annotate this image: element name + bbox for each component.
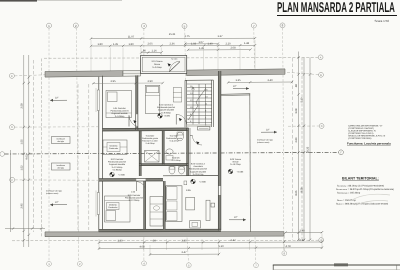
- svg-text:4: 4: [143, 24, 145, 28]
- svg-text:+(2.85)mp: +(2.85)mp: [112, 168, 122, 171]
- svg-text:2.20: 2.20: [225, 42, 231, 45]
- svg-text:8: 8: [282, 24, 284, 28]
- svg-text:22°: 22°: [266, 128, 270, 131]
- svg-text:+2.685: +2.685: [199, 180, 207, 183]
- svg-text:5: 5: [184, 24, 186, 28]
- svg-text:+2.685: +2.685: [237, 170, 245, 173]
- svg-text:Pardoseala parchet: Pardoseala parchet: [189, 168, 207, 171]
- svg-text:9.01 Terasa: 9.01 Terasa: [152, 60, 164, 63]
- svg-text:8.02 Dormitor: 8.02 Dormitor: [111, 158, 124, 161]
- svg-text:.90: .90: [152, 239, 156, 242]
- svg-text:E: E: [11, 75, 13, 78]
- svg-text:4.08: 4.08: [139, 245, 145, 248]
- svg-text:1.05: 1.05: [131, 191, 136, 194]
- svg-text:.98: .98: [295, 84, 298, 88]
- svg-text:1.07: 1.07: [198, 41, 204, 44]
- svg-text:Sdesfasurata = 165.46mp: Sdesfasurata = 165.46mp: [337, 191, 361, 194]
- svg-text:1: 1: [48, 24, 50, 28]
- svg-text:2: 2: [75, 24, 77, 28]
- svg-text:2.47: 2.47: [181, 251, 187, 254]
- svg-text:BILANT TERITORIAL:: BILANT TERITORIAL:: [342, 177, 379, 181]
- svg-text:1: 1: [48, 262, 50, 266]
- svg-text:8: 8: [284, 252, 286, 256]
- svg-text:2.95: 2.95: [110, 80, 116, 83]
- svg-text:(culoare maro): (culoare maro): [257, 141, 270, 144]
- svg-text:D: D: [321, 125, 323, 128]
- svg-text:S=9.98mp: S=9.98mp: [115, 115, 125, 118]
- svg-text:8.05: 8.05: [295, 190, 298, 196]
- svg-text:Pardoseala parchet: Pardoseala parchet: [108, 161, 126, 164]
- svg-text:4.78: 4.78: [285, 245, 291, 248]
- svg-text:1.35: 1.35: [113, 43, 119, 46]
- svg-text:1.45: 1.45: [199, 47, 205, 50]
- svg-text:+2.685: +2.685: [118, 173, 126, 176]
- svg-text:(culoare maro): (culoare maro): [46, 192, 59, 195]
- svg-text:8.05 Dormitor: 8.05 Dormitor: [128, 194, 141, 197]
- svg-text:22°: 22°: [55, 201, 59, 204]
- svg-text:3.30: 3.30: [181, 239, 187, 242]
- svg-text:1.80: 1.80: [97, 43, 103, 46]
- svg-text:Sconstr.anexa = 38.07mp+21.52m: Sconstr.anexa = 38.07mp+21.52mp(C2+platf…: [336, 188, 394, 191]
- svg-text:1.40: 1.40: [207, 42, 213, 45]
- svg-text:S=12.09mp: S=12.09mp: [129, 199, 141, 202]
- svg-text:2.75: 2.75: [184, 35, 190, 38]
- svg-text:S=12.48mp: S=12.48mp: [112, 166, 124, 169]
- svg-text:2.47: 2.47: [299, 239, 305, 242]
- svg-text:S=9.96mp: S=9.96mp: [161, 111, 171, 114]
- svg-text:C: C: [11, 179, 13, 182]
- svg-text:Zugraveli lavabile: Zugraveli lavabile: [158, 109, 175, 112]
- svg-text:F: F: [340, 151, 342, 154]
- svg-text:11.07: 11.07: [128, 36, 135, 39]
- svg-text:15.35: 15.35: [169, 33, 176, 36]
- svg-text:2: 2: [79, 262, 81, 266]
- svg-text:+bucatarie: +bucatarie: [193, 165, 204, 168]
- svg-text:8.04 Camera in: 8.04 Camera in: [159, 104, 174, 107]
- svg-text:2.95: 2.95: [21, 203, 24, 209]
- svg-text:4: 4: [143, 262, 145, 266]
- svg-text:S=20.47mp: S=20.47mp: [193, 173, 205, 176]
- svg-text:Pardoseala parchet: Pardoseala parchet: [110, 110, 128, 113]
- svg-text:Garderoba: Garderoba: [109, 147, 119, 150]
- svg-text:2.60: 2.60: [295, 137, 298, 143]
- svg-text:Sconstruita = 88.16mp (C1 Prin: Sconstruita = 88.16mp (C1 Principala+ext…: [337, 184, 384, 187]
- svg-text:(CONFORM P118/1999): (CONFORM P118/1999): [348, 137, 372, 140]
- svg-text:22°: 22°: [55, 96, 59, 99]
- svg-text:Garderoba: Garderoba: [108, 206, 118, 209]
- svg-text:din tigla: din tigla: [57, 167, 64, 170]
- svg-text:D: D: [11, 126, 13, 129]
- svg-text:2.08: 2.08: [230, 47, 236, 50]
- svg-text:1.30: 1.30: [117, 240, 123, 243]
- svg-text:2.40: 2.40: [267, 79, 273, 82]
- svg-text:2.58: 2.58: [21, 103, 24, 109]
- svg-text:22°: 22°: [233, 85, 237, 88]
- svg-text:5.10: 5.10: [218, 245, 224, 248]
- svg-text:5.10: 5.10: [301, 97, 304, 103]
- svg-text:2.47: 2.47: [230, 239, 236, 242]
- svg-text:Gresie: Gresie: [232, 161, 239, 164]
- svg-text:S=3.04mp: S=3.04mp: [152, 66, 162, 69]
- svg-text:7: 7: [255, 264, 257, 268]
- svg-text:2.05: 2.05: [147, 43, 153, 46]
- svg-text:+2.685: +2.685: [164, 115, 171, 118]
- svg-text:2.36: 2.36: [169, 43, 175, 46]
- svg-text:1.27: 1.27: [217, 35, 223, 38]
- svg-text:18.25: 18.25: [307, 146, 310, 153]
- svg-text:5: 5: [188, 263, 190, 267]
- svg-text:Sp 145: Sp 145: [171, 57, 178, 60]
- svg-text:1.16: 1.16: [151, 50, 157, 53]
- svg-text:1.55: 1.55: [21, 139, 24, 145]
- svg-text:1.48: 1.48: [244, 42, 250, 45]
- svg-text:A: A: [320, 56, 322, 59]
- svg-text:1.93: 1.93: [191, 43, 197, 46]
- svg-text:1.35: 1.35: [235, 79, 241, 82]
- svg-text:8.58: 8.58: [301, 187, 304, 193]
- svg-text:5.04 Dormitor: 5.04 Dormitor: [113, 107, 126, 110]
- svg-text:9.02: 9.02: [26, 154, 29, 160]
- svg-text:3.08: 3.08: [295, 108, 298, 114]
- svg-text:Zugraveli lavabile: Zugraveli lavabile: [109, 163, 126, 166]
- svg-text:2.40: 2.40: [299, 229, 305, 232]
- svg-text:22°: 22°: [234, 216, 238, 219]
- svg-text:7: 7: [253, 24, 255, 28]
- svg-text:8.03 Camera zi: 8.03 Camera zi: [191, 163, 206, 166]
- svg-text:1.52: 1.52: [21, 165, 24, 171]
- svg-text:S=4.47mp: S=4.47mp: [169, 140, 179, 143]
- svg-text:.90: .90: [142, 50, 146, 53]
- svg-text:Functiunea: Locuinta personala: Functiunea: Locuinta personala: [347, 142, 391, 146]
- svg-text:S=16.23mp: S=16.23mp: [230, 163, 242, 166]
- svg-text:B: B: [320, 74, 322, 77]
- svg-text:1.80: 1.80: [128, 43, 134, 46]
- svg-text:din tigla: din tigla: [57, 140, 64, 143]
- svg-text:Gresie: Gresie: [154, 63, 161, 66]
- svg-text:Zugraveli lavabile: Zugraveli lavabile: [111, 112, 128, 115]
- svg-text:Zugraveli lavabile: Zugraveli lavabile: [190, 170, 207, 173]
- svg-text:S=4.09mp: S=4.09mp: [145, 142, 155, 145]
- svg-text:3.65: 3.65: [186, 189, 191, 192]
- svg-text:2.90: 2.90: [147, 80, 153, 83]
- svg-text:8.06 Terasa: 8.06 Terasa: [230, 158, 242, 161]
- svg-text:Pardoseala parchet: Pardoseala parchet: [125, 196, 143, 199]
